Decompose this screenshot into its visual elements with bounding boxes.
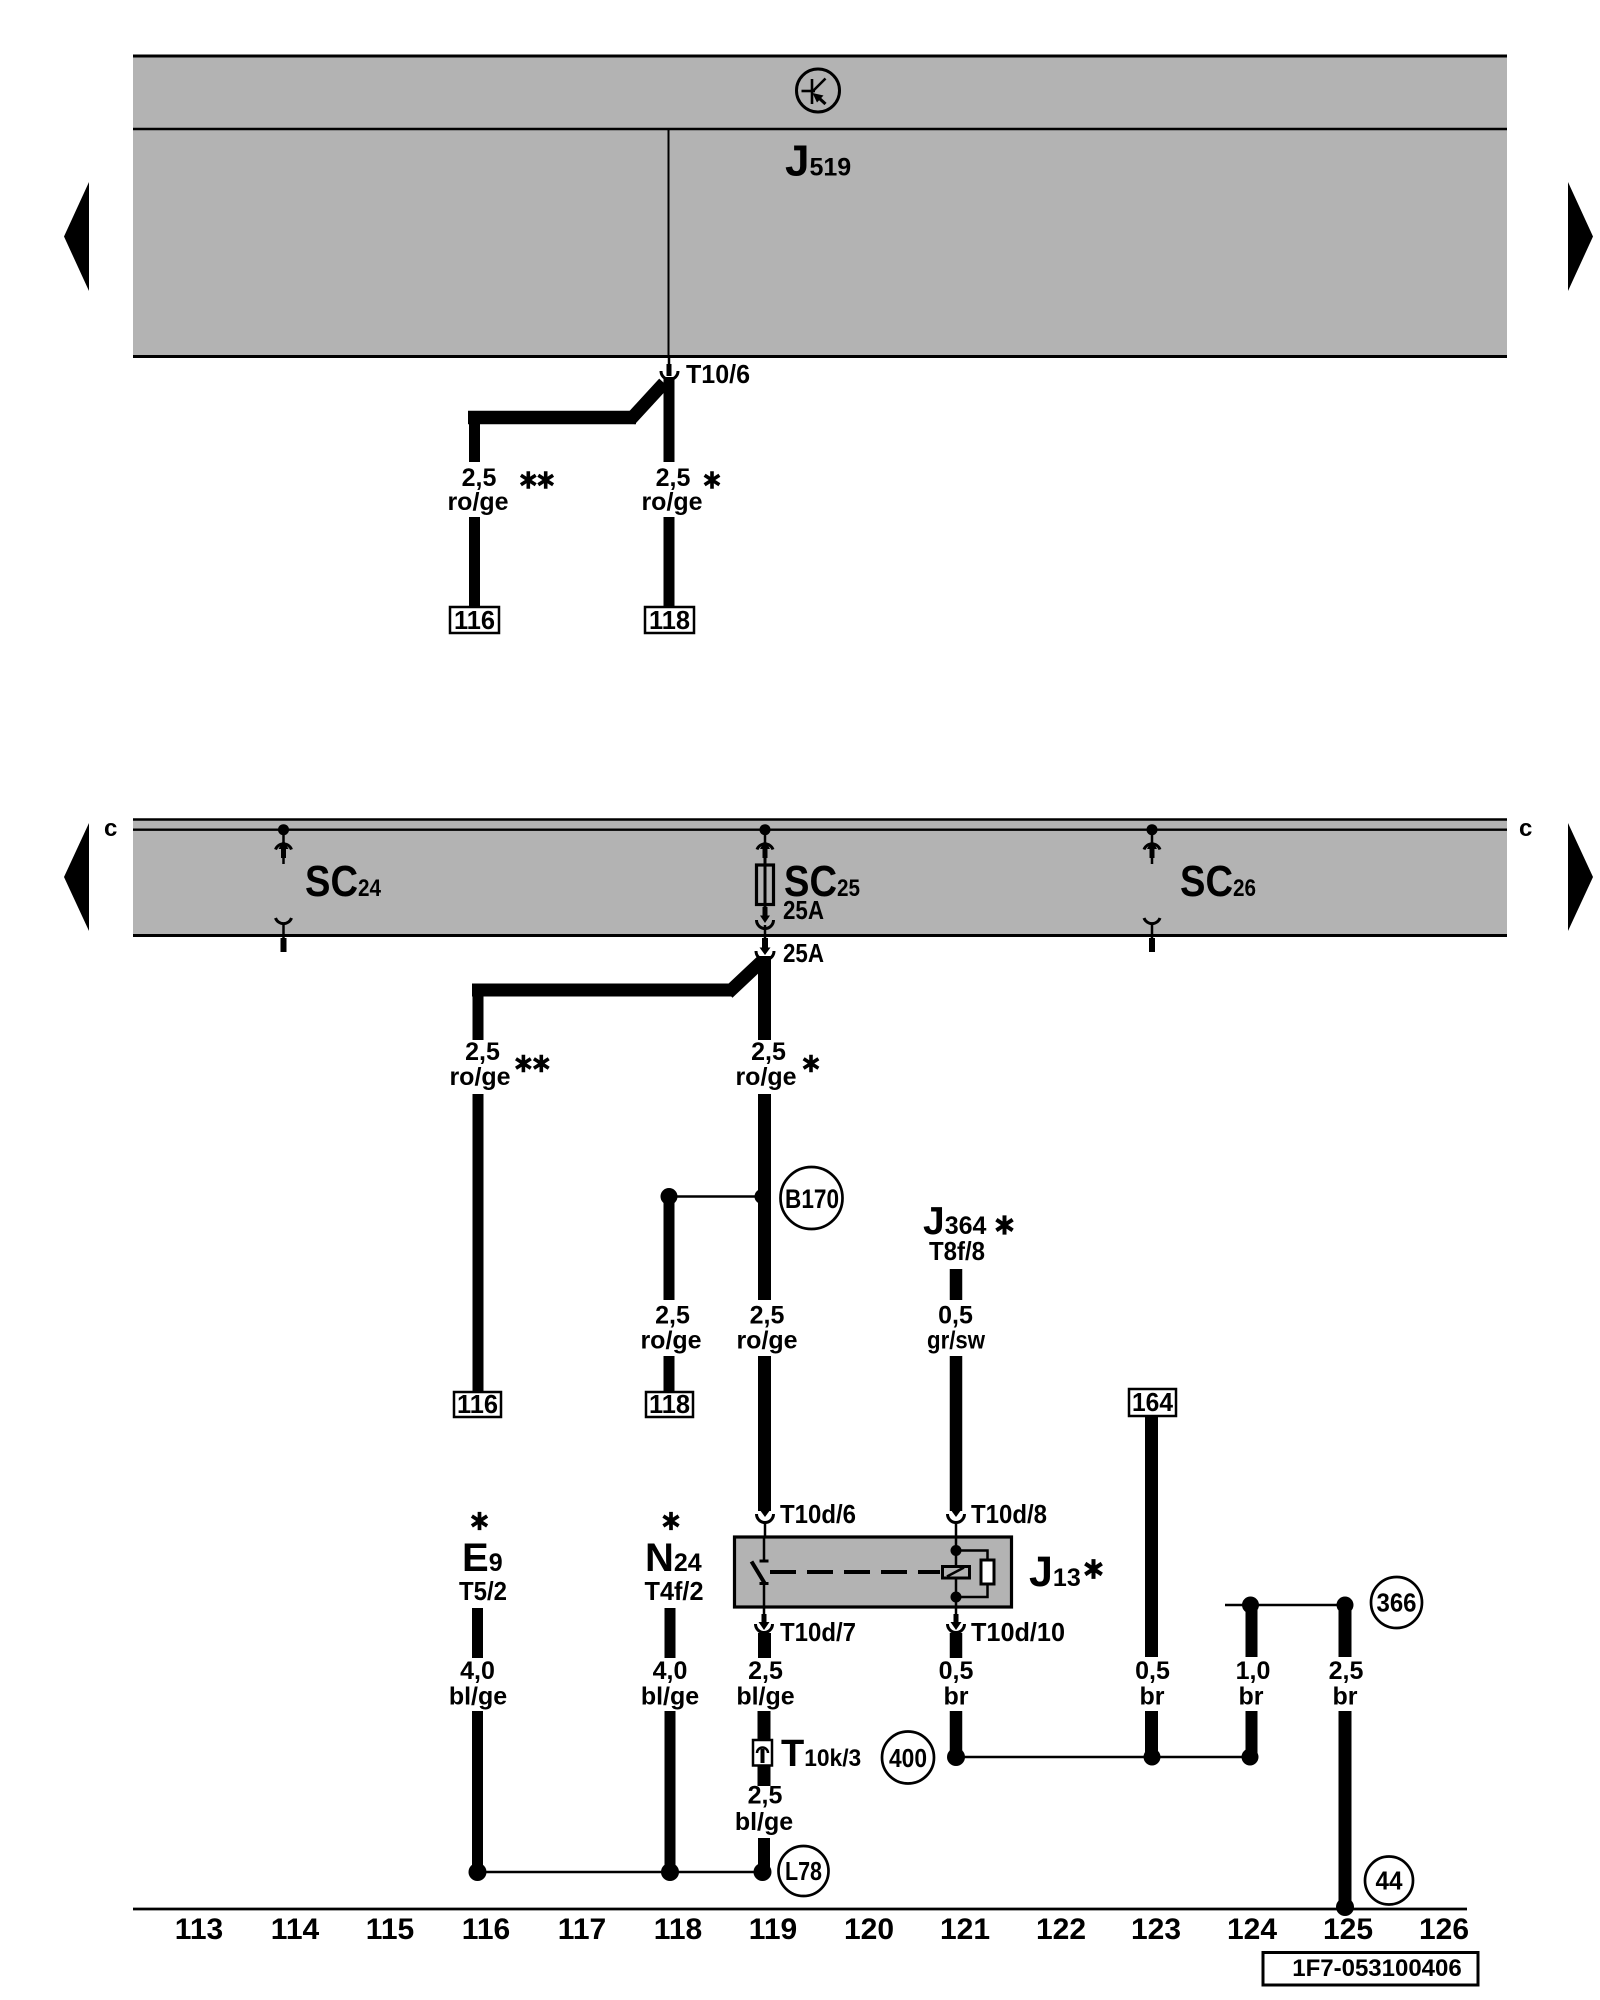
svg-text:118: 118 xyxy=(649,1389,690,1419)
svg-text:c: c xyxy=(104,815,117,842)
wire (thick, right branch) xyxy=(664,377,675,462)
wire T10d/10 down xyxy=(950,1711,963,1756)
fuse position SC25 xyxy=(757,824,773,910)
svg-text:125: 125 xyxy=(1323,1913,1373,1946)
node 400 xyxy=(882,1732,934,1784)
bottom rail xyxy=(133,1908,1467,1911)
wire stub below T10k/3 xyxy=(758,1766,771,1786)
svg-text:119: 119 xyxy=(749,1913,797,1946)
svg-text:bl/ge: bl/ge xyxy=(736,1683,794,1711)
svg-text:c: c xyxy=(1519,815,1532,842)
svg-text:118: 118 xyxy=(649,605,690,635)
direction arrow right (top band) xyxy=(1568,182,1593,291)
wire from 164 xyxy=(1145,1416,1158,1657)
svg-text:gr/sw: gr/sw xyxy=(927,1327,985,1355)
fuse band SC xyxy=(133,819,1507,936)
svg-text:T10/6: T10/6 xyxy=(686,359,750,389)
svg-text:25A: 25A xyxy=(783,938,824,968)
relay J13 box xyxy=(735,1537,1012,1607)
junction dot (164 wire) xyxy=(1144,1749,1161,1766)
svg-text:T10d/8: T10d/8 xyxy=(971,1499,1047,1529)
wire E9 to ground line xyxy=(472,1711,483,1872)
connector T10d/7 xyxy=(756,1610,773,1633)
svg-text:2,5: 2,5 xyxy=(1329,1657,1364,1685)
svg-text:113: 113 xyxy=(175,1913,223,1946)
diagram number box xyxy=(1263,1953,1478,1986)
wire right continues xyxy=(758,1094,771,1300)
svg-text:bl/ge: bl/ge xyxy=(735,1808,793,1836)
svg-text:126: 126 xyxy=(1419,1913,1469,1946)
wire stub below T10d/7 xyxy=(758,1633,771,1658)
svg-text:ro/ge: ro/ge xyxy=(640,1327,701,1355)
node 366 xyxy=(1371,1577,1422,1628)
wire stub below E9 xyxy=(472,1608,483,1658)
svg-text:2,5: 2,5 xyxy=(751,1038,786,1066)
svg-text:366: 366 xyxy=(1377,1588,1417,1618)
svg-text:121: 121 xyxy=(940,1913,990,1946)
terminal box 116 xyxy=(450,605,499,635)
direction arrow right (fuse band) xyxy=(1568,823,1593,931)
control unit J519 box xyxy=(133,55,1507,357)
svg-text:2,5: 2,5 xyxy=(750,1302,785,1330)
svg-text:400: 400 xyxy=(889,1743,927,1773)
connector T10d/6 xyxy=(757,1510,774,1537)
connector T10k/3 xyxy=(753,1740,772,1766)
wire left vertical xyxy=(469,411,480,462)
wire to L78 node xyxy=(758,1838,770,1872)
svg-text:T5/2: T5/2 xyxy=(459,1576,507,1606)
junction dot (1,0 wire bottom) xyxy=(1242,1749,1259,1766)
svg-text:0,5: 0,5 xyxy=(1135,1657,1170,1685)
fuse position SC26 xyxy=(1144,824,1160,952)
relay coil (right) xyxy=(943,1537,995,1610)
node 44 xyxy=(1365,1857,1413,1905)
svg-text:L78: L78 xyxy=(785,1856,822,1886)
terminal box 118 (second) xyxy=(646,1389,693,1419)
svg-text:116: 116 xyxy=(462,1913,510,1946)
wire stub from J364 xyxy=(950,1269,963,1300)
svg-text:br: br xyxy=(1140,1683,1165,1711)
asterisk * (J13) xyxy=(1085,1559,1102,1579)
wire to 116 xyxy=(469,517,480,607)
wire branch to 118 xyxy=(664,1196,675,1300)
svg-text:122: 122 xyxy=(1036,1913,1086,1946)
asterisk * (E9) xyxy=(472,1512,487,1530)
junction dot (N24) xyxy=(661,1863,679,1881)
svg-text:bl/ge: bl/ge xyxy=(449,1683,507,1711)
svg-text:2,5: 2,5 xyxy=(655,1302,690,1330)
wire T10d/7 to T10k/3 xyxy=(758,1711,771,1740)
junction dot left xyxy=(661,1188,678,1205)
svg-text:ro/ge: ro/ge xyxy=(641,488,702,516)
svg-text:1F7-053100406: 1F7-053100406 xyxy=(1292,1955,1461,1982)
wire left to 116 xyxy=(473,1094,484,1392)
terminal box 116 (second) xyxy=(454,1389,501,1419)
connector 25A below band xyxy=(756,938,774,960)
svg-text:T10d/6: T10d/6 xyxy=(780,1499,856,1529)
svg-text:117: 117 xyxy=(558,1913,606,1946)
connector T10d/10 xyxy=(948,1610,965,1633)
connector below fuse xyxy=(757,907,774,939)
svg-text:2,5: 2,5 xyxy=(465,1038,500,1066)
svg-text:1,0: 1,0 xyxy=(1236,1657,1271,1685)
wire from SC25 (thick) xyxy=(758,956,771,1040)
svg-text:4,0: 4,0 xyxy=(460,1657,495,1685)
svg-text:164: 164 xyxy=(1132,1387,1174,1417)
relay dashed link xyxy=(770,1570,940,1574)
link wire 366 xyxy=(1225,1604,1349,1607)
svg-text:T8f/8: T8f/8 xyxy=(929,1236,985,1266)
terminal box 118 xyxy=(645,605,694,635)
svg-text:br: br xyxy=(1239,1683,1264,1711)
ignition switch symbol xyxy=(797,69,840,112)
junction dot (ground 44) xyxy=(1336,1898,1354,1916)
wire stub below N24 xyxy=(665,1608,676,1658)
wire to relay T10d/6 xyxy=(758,1356,771,1511)
fuse SC25 symbol xyxy=(757,865,774,905)
wire N24 to ground line xyxy=(665,1711,676,1872)
svg-text:B170: B170 xyxy=(785,1184,839,1214)
svg-text:ro/ge: ro/ge xyxy=(447,488,508,516)
svg-text:44: 44 xyxy=(1376,1866,1404,1896)
svg-text:25A: 25A xyxy=(783,895,824,925)
wire to 118 xyxy=(664,517,675,607)
svg-text:2,5: 2,5 xyxy=(748,1657,783,1685)
wire diagonal branch xyxy=(630,383,664,420)
svg-text:0,5: 0,5 xyxy=(938,1302,973,1330)
svg-text:ro/ge: ro/ge xyxy=(735,1063,796,1091)
wire 2,5 br upper xyxy=(1339,1609,1352,1657)
svg-text:123: 123 xyxy=(1131,1913,1181,1946)
wire horizontal branch xyxy=(472,984,733,997)
wire 2,5 br lower xyxy=(1339,1711,1352,1905)
terminal box 164 xyxy=(1129,1387,1176,1417)
ground link wire xyxy=(478,1871,764,1874)
asterisk * (N24) xyxy=(663,1512,678,1530)
svg-text:120: 120 xyxy=(844,1913,894,1946)
svg-text:T10d/7: T10d/7 xyxy=(780,1617,856,1647)
svg-text:115: 115 xyxy=(366,1913,414,1946)
relay contact (left) xyxy=(752,1537,769,1610)
svg-text:br: br xyxy=(944,1683,969,1711)
asterisk * (J364) xyxy=(996,1215,1012,1234)
asterisk * xyxy=(804,1055,819,1073)
svg-text:2,5: 2,5 xyxy=(748,1782,783,1810)
wire to relay T10d/8 xyxy=(950,1356,963,1511)
asterisk ** xyxy=(521,471,536,489)
junction dot (400) xyxy=(947,1748,965,1766)
wire 164 lower xyxy=(1145,1711,1158,1756)
svg-text:116: 116 xyxy=(457,1389,498,1419)
svg-text:br: br xyxy=(1333,1683,1358,1711)
wire stub below T10d/10 xyxy=(950,1633,963,1658)
wire 1,0 br upper xyxy=(1246,1609,1258,1657)
asterisk * xyxy=(705,471,720,489)
wire from J519 pin xyxy=(668,358,671,366)
svg-text:118: 118 xyxy=(654,1913,702,1946)
wire 1,0 br lower xyxy=(1246,1711,1258,1756)
svg-text:124: 124 xyxy=(1227,1913,1277,1946)
node B170 junction wire xyxy=(669,1195,765,1198)
svg-text:4,0: 4,0 xyxy=(653,1657,688,1685)
node B170 xyxy=(781,1167,843,1229)
svg-text:ro/ge: ro/ge xyxy=(449,1063,510,1091)
asterisk ** xyxy=(516,1055,531,1073)
svg-text:116: 116 xyxy=(454,605,495,635)
junction dot (1,0 top) xyxy=(1242,1597,1259,1614)
direction arrow left (fuse band) xyxy=(64,823,89,931)
svg-text:bl/ge: bl/ge xyxy=(641,1683,699,1711)
wire to 118 box xyxy=(664,1356,675,1392)
junction dot (2,5 top) xyxy=(1337,1597,1354,1614)
junction dot right xyxy=(755,1189,770,1204)
junction dot (E9) xyxy=(469,1863,487,1881)
svg-text:114: 114 xyxy=(271,1913,320,1946)
node L78 xyxy=(779,1846,829,1896)
wire horizontal branch xyxy=(468,411,636,425)
connector T10/6 xyxy=(661,364,678,380)
junction dot (L78) xyxy=(754,1863,772,1881)
wire diagonal branch xyxy=(728,961,762,993)
ground link wire lower xyxy=(956,1756,1249,1759)
svg-text:T10d/10: T10d/10 xyxy=(971,1617,1065,1647)
connector T10d/8 xyxy=(948,1510,965,1537)
direction arrow left (top band) xyxy=(64,182,89,291)
wire left vertical xyxy=(473,984,484,1040)
svg-text:T4f/2: T4f/2 xyxy=(645,1576,704,1606)
svg-text:ro/ge: ro/ge xyxy=(736,1327,797,1355)
fuse position SC24 xyxy=(276,824,292,952)
svg-text:0,5: 0,5 xyxy=(939,1657,974,1685)
